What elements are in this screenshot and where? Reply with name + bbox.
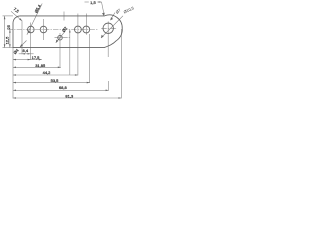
svg-text:31,85: 31,85 — [35, 63, 46, 68]
svg-text:81,3: 81,3 — [65, 94, 74, 99]
svg-text:Ø7: Ø7 — [114, 7, 122, 15]
svg-text:1,5: 1,5 — [90, 0, 96, 5]
svg-text:8,4: 8,4 — [23, 48, 29, 53]
svg-text:25: 25 — [6, 24, 11, 29]
svg-text:Ø2: Ø2 — [61, 25, 69, 33]
svg-text:Ø5,4: Ø5,4 — [33, 3, 42, 14]
svg-text:68,8: 68,8 — [59, 85, 68, 90]
svg-text:7,5: 7,5 — [13, 6, 21, 14]
svg-text:17,5: 17,5 — [32, 55, 41, 60]
svg-text:53,5: 53,5 — [51, 78, 60, 83]
svg-text:44,2: 44,2 — [43, 70, 52, 75]
svg-text:Ø10,5: Ø10,5 — [123, 5, 136, 14]
svg-text:12,5: 12,5 — [4, 36, 9, 45]
